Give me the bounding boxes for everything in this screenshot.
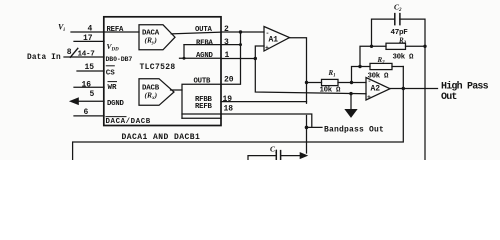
wire pin 1 AGND	[221, 58, 255, 60]
wire C2 right	[400, 19, 425, 160]
svg-text:REFB: REFB	[195, 103, 213, 111]
svg-text:20: 20	[224, 75, 234, 84]
svg-text:47pF: 47pF	[391, 29, 409, 37]
svg-text:CS: CS	[106, 70, 116, 78]
internal vertical below DACB apex wire	[181, 90, 183, 118]
svg-text:+: +	[265, 44, 269, 51]
wire A2 inverting node up to R2	[352, 67, 371, 83]
svg-text:VDD: VDD	[107, 42, 120, 53]
DAC B pentagon	[139, 79, 174, 106]
svg-text:15: 15	[85, 63, 95, 72]
arrow junction into bandpass vertical	[300, 153, 306, 158]
wire pin 19 RFBB to A1 output node	[221, 101, 307, 103]
wire AGND up to A1 + input	[255, 46, 264, 59]
wire data bus pins 14-7	[64, 56, 104, 58]
svg-text:10k Ω: 10k Ω	[320, 87, 342, 95]
svg-text:5: 5	[90, 90, 95, 99]
svg-text:30k Ω: 30k Ω	[393, 54, 415, 62]
svg-text:16: 16	[82, 80, 92, 89]
svg-text:8: 8	[67, 48, 72, 57]
junction dots	[239, 30, 242, 33]
wire pin 3 RFBA stub	[221, 44, 241, 46]
wire C2 left drop	[372, 19, 395, 46]
svg-text:REFA: REFA	[107, 26, 125, 34]
resistor R1 body	[322, 79, 339, 85]
resistor R3 30k body	[386, 43, 406, 49]
wire bandpass vertical resumes below REFB hop	[306, 116, 308, 154]
ground stub below A2 + input	[350, 94, 352, 110]
internal wire REFB row inside	[182, 113, 221, 115]
internal lower stub line	[182, 117, 221, 119]
wire C1 right lead	[281, 155, 301, 157]
svg-text:3: 3	[224, 38, 229, 47]
internal wire RFBA	[184, 44, 221, 46]
wire A2 output to High Pass Out	[390, 88, 438, 90]
wire pin 2 OUTA to A1 inverting input	[221, 31, 264, 33]
capacitor C2 plates	[395, 14, 400, 25]
wire bandpass out stub	[307, 126, 323, 128]
svg-text:R3: R3	[398, 36, 407, 46]
svg-text:A2: A2	[371, 85, 381, 94]
svg-text:(Ry): (Ry)	[145, 35, 158, 46]
capacitor C1 left lead	[248, 156, 276, 160]
internal wire DACB apex to OUTB	[171, 84, 222, 90]
svg-text:+: +	[367, 94, 371, 101]
svg-text:A1: A1	[269, 36, 279, 45]
svg-text:4: 4	[88, 25, 93, 34]
wire pin 20 OUTB joins OUTA net	[221, 32, 241, 84]
svg-text:DB0-DB7: DB0-DB7	[106, 56, 133, 63]
svg-text:17: 17	[83, 34, 93, 43]
op-amp A2	[366, 78, 390, 101]
svg-text:Data In: Data In	[27, 54, 61, 62]
svg-text:30k Ω: 30k Ω	[368, 73, 390, 81]
svg-text:2: 2	[224, 25, 229, 34]
svg-text:-: -	[266, 30, 270, 37]
svg-text:DACA/DACB: DACA/DACB	[106, 118, 151, 126]
internal wire DACA apex to OUTA pin 2	[171, 32, 221, 34]
wire A1 output down to bandpass node	[290, 38, 307, 104]
wire pin 6 DACA/DACB	[74, 115, 104, 117]
svg-text:DACA1 AND DACB1: DACA1 AND DACB1	[122, 133, 201, 142]
svg-text:High Pass: High Pass	[441, 80, 489, 92]
wire A2 output feedback down	[73, 67, 404, 161]
wire pin 18 REFB to bandpass node	[221, 114, 312, 127]
svg-text:OUTB: OUTB	[194, 77, 212, 85]
svg-text:R1: R1	[328, 69, 336, 79]
bus slash	[70, 48, 78, 57]
wire R3 left drop	[360, 46, 386, 66]
resistor R2 30k body	[370, 63, 392, 69]
wire pin 4 REFA input	[71, 31, 139, 33]
svg-text:19: 19	[223, 95, 233, 104]
svg-text:6: 6	[84, 108, 89, 117]
svg-text:(Rx): (Rx)	[145, 91, 158, 102]
wire pin 15 CS	[77, 70, 104, 72]
ground arrow on DGND wire	[71, 98, 79, 104]
wire pin 16 WR	[74, 86, 104, 88]
svg-text:Bandpass Out: Bandpass Out	[324, 126, 384, 135]
resistor R3 right lead	[406, 45, 426, 47]
svg-text:RFBA: RFBA	[196, 39, 214, 47]
svg-text:C2: C2	[394, 2, 402, 13]
IC U1 TLC7528 body	[104, 17, 221, 126]
wire AGND down and right to A2 + input	[255, 59, 366, 94]
internal vertical RFBA to AGND	[183, 45, 185, 59]
resistor R2 right lead to output	[392, 66, 403, 68]
svg-text:1: 1	[225, 51, 230, 60]
internal wire AGND	[180, 57, 222, 59]
svg-text:C1: C1	[270, 144, 278, 155]
DAC A pentagon	[139, 25, 175, 50]
svg-text:Out: Out	[441, 92, 457, 103]
capacitor C1 plates	[276, 151, 280, 160]
svg-text:WR: WR	[108, 84, 118, 92]
svg-text:DGND: DGND	[107, 100, 125, 108]
wire pin 17 VDD	[74, 40, 104, 42]
svg-text:18: 18	[224, 105, 234, 114]
resistor R1 10k leads	[307, 82, 367, 84]
svg-text:AGND: AGND	[196, 52, 214, 60]
svg-text:TLC7528: TLC7528	[140, 63, 176, 72]
svg-text:Vi: Vi	[58, 23, 65, 34]
svg-text:OUTA: OUTA	[195, 26, 213, 34]
ground arrow	[346, 110, 357, 117]
wire pin 5 DGND	[72, 100, 104, 102]
svg-text:14-7: 14-7	[78, 50, 96, 58]
op-amp A1	[264, 27, 290, 52]
